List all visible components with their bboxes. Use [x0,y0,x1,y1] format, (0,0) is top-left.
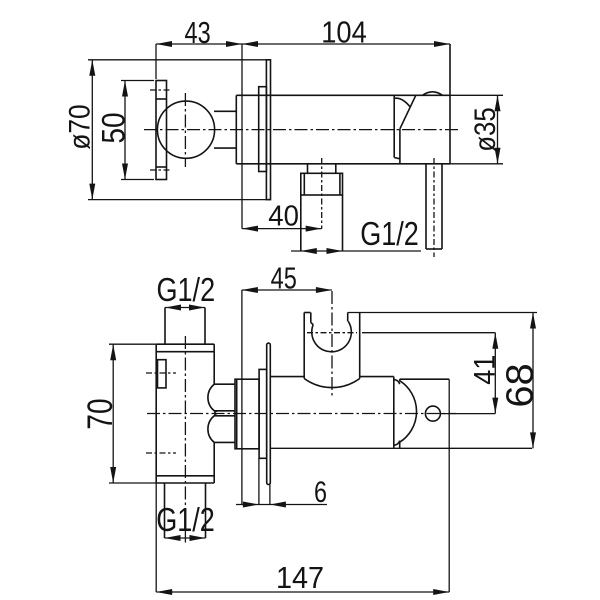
plan body bottom band [156,475,214,477]
svg-text:G1/2: G1/2 [360,217,419,253]
extension line top of handle plate [121,80,154,82]
head back curve [394,98,410,106]
dimension line 70 [112,344,114,483]
svg-text:43: 43 [185,15,211,50]
dimension line 43 [156,43,242,45]
svg-text:68: 68 [499,363,541,407]
extension line body top right [450,94,503,96]
svg-text:70: 70 [80,398,120,429]
svg-text:40: 40 [268,199,299,232]
thread dimension G1/2 of inlet [291,250,421,252]
plan body left edge [155,344,157,483]
plan outlet hole [425,406,440,421]
plan joint bottom fillet [394,441,400,446]
holder cup slot right [347,313,349,322]
plan horizontal centerline [147,413,456,415]
thread dimension G1/2 bottom nipple [165,537,206,539]
svg-text:ø70: ø70 [62,104,96,149]
head lower left edge [399,129,401,164]
extension line hole center [440,413,495,415]
lower cartridge lobe [208,416,235,443]
svg-text:41: 41 [468,355,502,385]
large wall disc diameter 70 [266,60,270,200]
holder cup vertical centerline [331,291,333,397]
head slanted edge [400,95,416,129]
extension line cup center [362,332,495,334]
inlet neck left [307,164,309,174]
upper cartridge lobe [208,384,235,411]
connector block [235,379,259,449]
plan vertical centerline [184,336,186,545]
cylinder end joint [393,95,395,157]
extension line escutcheon face [258,458,260,504]
dimension line diameter 35 [497,95,499,164]
plan lower tick [146,452,176,454]
handle plate inner bottom line [156,166,167,168]
dimension line 50 [124,81,126,180]
wall flange plan [267,343,271,484]
plan tube bottom edge with extension [270,447,532,449]
extension line top of wall plate [88,59,271,61]
outlet pipe left edge [425,164,427,249]
svg-text:147: 147 [276,561,324,595]
plan detail rectangle [158,360,167,388]
dimension line 147 [156,591,449,593]
extension line left of 43 [155,44,157,79]
dimension line diameter 70 [91,60,93,200]
bottom nipple right edge [205,483,207,538]
holder cup bottom arc [304,379,360,388]
top nipple right edge [204,308,206,345]
holder dome [423,92,443,95]
body bottom edge [236,163,450,165]
handle plate [156,81,167,180]
svg-text:45: 45 [271,260,297,295]
extension line plan body left [155,483,157,592]
escutcheon plate plan [259,369,267,458]
plan joint top fillet [394,380,400,385]
plan body bottom edge [156,482,214,484]
handle plate inner top line [156,98,167,100]
reference extension line x=242 plan [241,290,243,505]
plan head right edge with extension [448,379,450,592]
inlet hex inner left [303,173,305,195]
holder cup slot left connector [311,323,313,325]
inlet tube left [300,195,302,251]
holder cup top right segment with extension [348,312,537,314]
dimension line 68 [532,313,534,449]
outlet pipe bottom edge [426,248,442,250]
holder cup horizontal tick [307,332,357,334]
inlet centerline [321,158,323,229]
lobe pinch [215,411,218,416]
outlet pipe centerline [433,158,435,257]
plan head left edge bottom [399,442,401,449]
handle stem bottom [214,147,236,149]
plan tube end joint [393,377,395,449]
inlet neck right [335,164,337,174]
extension line body bottom right [450,163,503,165]
holder cup bore [312,321,352,352]
connector block inner line [236,379,238,449]
svg-text:ø35: ø35 [468,107,501,151]
outlet pipe right edge [441,164,443,249]
svg-text:G1/2: G1/2 [156,273,215,309]
bottom nipple left edge [164,483,166,538]
holder cup slot left [310,313,312,323]
svg-text:50: 50 [97,112,132,143]
svg-text:104: 104 [321,16,367,50]
dimension line 6 [236,504,327,506]
plan head left edge top [399,379,401,381]
inlet tube right [342,195,344,251]
extension line plan body bottom [109,482,156,484]
extension line flange face [269,485,271,505]
extension line bottom of handle plate [121,179,154,181]
svg-text:G1/2: G1/2 [156,503,215,539]
svg-text:6: 6 [314,475,327,508]
holder cup left edge [303,313,305,379]
plan head top edge [400,378,450,380]
handle ball [157,101,214,158]
dimension line 40 [242,228,322,230]
thread dimension G1/2 top nipple [165,307,205,309]
holder cup right edge [359,313,361,379]
dimension line 41 [494,333,496,414]
reference extension line x=242 [241,44,243,229]
dimension line 45 [242,289,332,291]
plan body right edge upper [213,344,215,384]
plan upper tick [146,372,176,374]
body right end line [449,44,451,164]
extension line plan body top [109,343,156,345]
small wall disc [259,87,267,172]
plan body top band [156,351,214,353]
dimension line 104 [242,43,450,45]
top nipple left edge [164,308,166,345]
handle ball vertical centerline [184,93,186,167]
inlet hex block [301,173,343,195]
plan tube top edge right [360,376,394,378]
inlet hex inner right [339,173,341,195]
handle plate lower tick [150,169,172,171]
joint bottom connector [394,158,400,159]
plan body right edge lower [213,442,215,483]
holder cup top left segment [304,312,310,314]
plan body top edge [156,343,214,345]
handle stem top [214,110,236,112]
plan holder dome arc [400,381,417,443]
handle plate upper tick [150,89,172,91]
body left end [235,95,237,164]
plan tube top edge left [270,376,304,378]
body horizontal centerline [144,129,459,131]
body top edge [236,94,450,96]
extension line bottom of wall plate [88,199,271,201]
